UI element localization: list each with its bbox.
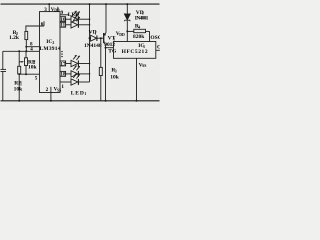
- svg-text:820k: 820k: [133, 34, 145, 40]
- wire top supply rail: [1, 3, 160, 5]
- svg-text:1: 1: [84, 92, 86, 96]
- wiper arrow of RP2: [19, 61, 22, 63]
- pin 11 cell box, label "11", stub wire to LED2: [60, 22, 66, 27]
- resistor R4 820k (horizontal box) oscillator resistor with wires, labels "R4", "820k", "OSC": [127, 30, 134, 32]
- svg-text:10k: 10k: [110, 75, 120, 81]
- svg-text:1N4148: 1N4148: [84, 43, 102, 49]
- svg-text:2: 2: [46, 87, 49, 93]
- LED LED1 (triangle, cathode bar, wire to bus, emission arrows) and label "LED1": [71, 11, 90, 23]
- svg-text:HFC5212: HFC5212: [122, 49, 148, 55]
- pin 9 mode stub wire, label "9": [60, 14, 69, 16]
- svg-text:1N4001: 1N4001: [134, 15, 148, 21]
- wire pin8 node down to pin4 line: [25, 47, 27, 52]
- resistor R2 1.2k (vertical box) with value label: [25, 31, 28, 39]
- pin 6 stub wire from IC2 left edge to R2 top, label "6": [26, 21, 44, 31]
- pin 17 cell box, label "17", stub wire to LED3: [60, 61, 66, 66]
- svg-text:OU: OU: [157, 45, 160, 51]
- svg-text:1: 1: [95, 31, 97, 35]
- pin 8 stub wire with junction dot, label "8": [26, 46, 39, 48]
- svg-text:DD: DD: [54, 9, 60, 13]
- svg-text:OSC: OSC: [150, 35, 160, 41]
- svg-text:17: 17: [60, 61, 66, 67]
- svg-text:3: 3: [44, 7, 47, 13]
- svg-text:LED: LED: [71, 90, 84, 96]
- node OUT stub wire at IC3 right edge with clipped label: [156, 49, 160, 51]
- svg-text:TG: TG: [108, 48, 117, 54]
- transistor VT1 9012 PNP: base bar, emitter to top rail with arrow and dot, collector down, labels: [104, 4, 106, 48]
- capacitor C1 input coupling (two plates) with wires to pin4 line and ground rail: [2, 51, 4, 69]
- pin 5 signal input wire, label "5": [19, 73, 39, 75]
- pin 10 cell box, label "10", stub wire to LED1: [60, 17, 66, 22]
- svg-text:9: 9: [61, 10, 64, 16]
- resistor R3 10k (vertical box) from base node to ground rail with labels: [100, 37, 102, 39]
- LED LED4: [71, 66, 90, 78]
- svg-text:6: 6: [41, 22, 44, 28]
- diode VD1 1N4148 (pointing right) with labels: [89, 37, 91, 39]
- svg-text:3: 3: [115, 69, 117, 73]
- wire R2 bottom to pin 8 node: [25, 40, 27, 47]
- potentiometer RP1 10k (vertical box) with wires, junction dots and labels: [18, 51, 20, 66]
- svg-text:4: 4: [138, 25, 140, 29]
- svg-text:11: 11: [60, 23, 65, 29]
- IC U2: IC2 LM3914 dot/bar display driver, body box with labels: [40, 12, 61, 93]
- pin 2 (VSS) bottom wire to ground rail, junction dot, labels "2" and "VSS": [50, 87, 52, 101]
- svg-text:LM3914: LM3914: [40, 46, 61, 52]
- svg-text:5: 5: [35, 75, 38, 81]
- wire pin 4 line across to input network, junction dots, label "4": [3, 50, 40, 52]
- LED LED2: [71, 17, 90, 29]
- pin 18 cell box, label "18", stub wire to LED4: [60, 71, 66, 76]
- wire VT1 collector node: junction dot, stub to IC3 TG pin, wire down to ground rail with dot: [105, 47, 107, 49]
- potentiometer RP2 10k (vertical box) with wires and junction dot: [25, 51, 27, 58]
- svg-text:10k: 10k: [28, 64, 38, 70]
- LED LED5 and label "LED1(0)": [71, 74, 90, 86]
- pin 1 stub wire to LED5, label "1": [60, 81, 71, 83]
- wire LED common bus to top rail with junction dots: [89, 4, 91, 82]
- svg-text:1.2k: 1.2k: [9, 35, 20, 41]
- svg-text:18: 18: [60, 72, 66, 78]
- svg-text:SS: SS: [142, 64, 146, 68]
- continuation dots (omitted pins 12-16): [61, 51, 62, 52]
- wire VDD node down to IC3 top edge, junction dot, label "VDD": [126, 30, 128, 32]
- diode VD3 1N4001 (zener-style, pointing down) from top rail, junction dot, labels: [126, 3, 128, 5]
- LED LED3: [71, 55, 90, 66]
- wire bottom ground rail: [1, 100, 160, 102]
- svg-text:10k: 10k: [14, 87, 24, 93]
- pin 3 (VDD) top wire to supply rail, junction dot, labels "3" and "VDD": [48, 4, 50, 12]
- svg-text:1: 1: [113, 37, 115, 41]
- wire IC3 VSS pin down to ground rail, junction dot, label "VSS": [136, 58, 138, 101]
- svg-text:1: 1: [61, 84, 64, 90]
- svg-text:DD: DD: [119, 33, 125, 37]
- IC U3: IC3 HFC5212 music chip, body box with labels: [114, 42, 156, 59]
